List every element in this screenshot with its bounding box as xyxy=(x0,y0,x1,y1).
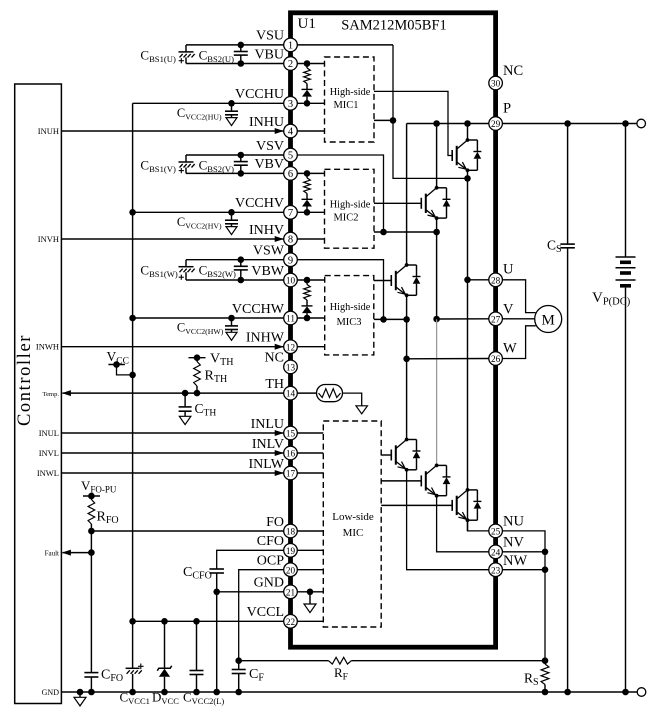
wire V to motor xyxy=(502,318,534,320)
wire VCCHV line xyxy=(133,211,284,213)
ground at pin21 inside module xyxy=(307,589,314,605)
wire Fault line with arrow into controller xyxy=(62,531,95,556)
wire U to motor xyxy=(502,280,535,313)
wire low-side gate drive W xyxy=(381,454,391,456)
pin 20 xyxy=(284,563,298,577)
svg-text:VSW: VSW xyxy=(253,244,285,259)
diode DVCC zener xyxy=(157,621,171,692)
diode bootstrap D (U) xyxy=(302,84,313,104)
svg-text:INHU: INHU xyxy=(249,115,284,130)
wire INUL from controller to module xyxy=(61,430,283,436)
pin 23 xyxy=(489,563,503,577)
resistor bootstrap R (V) xyxy=(304,173,311,193)
pin 27 xyxy=(489,312,503,326)
diode bootstrap D (W) xyxy=(302,300,313,318)
capacitor CCFO xyxy=(209,569,224,592)
pin 29 xyxy=(489,117,503,131)
svg-text:Low-side: Low-side xyxy=(332,511,374,523)
label pin name CFO xyxy=(257,534,284,549)
pin 5 xyxy=(284,148,298,162)
pin 11 xyxy=(284,311,298,325)
resistor RFO xyxy=(88,496,95,531)
label CVCC2(HW) xyxy=(177,321,224,337)
svg-text:1: 1 xyxy=(288,41,293,52)
pin 16 xyxy=(284,446,298,460)
svg-text:GND: GND xyxy=(42,688,60,697)
label SAM212M05BF1 xyxy=(341,18,447,34)
svg-text:30: 30 xyxy=(491,79,501,89)
svg-text:18: 18 xyxy=(286,527,296,537)
label pin name OCP xyxy=(257,554,284,569)
label CF xyxy=(249,667,264,684)
wire FO line xyxy=(88,528,284,535)
svg-text:VBW: VBW xyxy=(251,264,284,279)
label pin name VSW xyxy=(253,244,285,259)
ground symbol on bottom rail xyxy=(74,692,86,706)
capacitor CTH xyxy=(179,393,192,416)
wire MIC1 gate drive xyxy=(374,91,452,155)
wire P line external xyxy=(502,120,637,127)
svg-text:3: 3 xyxy=(288,99,293,110)
svg-text:VCCL: VCCL xyxy=(247,605,284,620)
wire pin 19 into low-side MIC xyxy=(297,549,323,551)
svg-text:MIC3: MIC3 xyxy=(336,317,361,328)
wire U phase column xyxy=(464,171,471,531)
wire MIC1 VS to VSU xyxy=(374,117,396,124)
wire pin 20 into low-side MIC xyxy=(297,569,323,571)
wire RF line xyxy=(239,660,545,662)
label CVCC1 xyxy=(120,690,150,707)
svg-text:16: 16 xyxy=(286,449,296,459)
svg-text:13: 13 xyxy=(286,363,296,373)
capacitor CBS1(W) electrolytic xyxy=(179,260,195,280)
svg-text:INLU: INLU xyxy=(251,417,284,432)
wire pin VCCHV to MIC xyxy=(297,209,325,216)
IGBT high-side W xyxy=(391,263,420,297)
svg-text:High-side: High-side xyxy=(330,87,371,98)
svg-text:17: 17 xyxy=(286,469,296,479)
wire VSW net xyxy=(297,260,384,320)
wire W line to pin 26 xyxy=(407,358,490,360)
wire V phase column upper xyxy=(433,219,440,323)
wire VBU line xyxy=(186,63,284,65)
label pin name NC xyxy=(503,63,523,79)
svg-text:High-side: High-side xyxy=(330,200,371,211)
svg-text:20: 20 xyxy=(286,565,296,575)
controller pin label GND xyxy=(42,688,60,697)
wire P drop to high-side W collector xyxy=(406,124,408,266)
controller pin label INVL xyxy=(39,448,59,458)
wire GND line (pin21) xyxy=(213,589,284,596)
label pin name W xyxy=(503,341,517,357)
wire P drop to high-side V collector xyxy=(436,124,438,189)
pin 24 xyxy=(489,545,503,559)
VTH terminal xyxy=(189,354,206,361)
svg-text:4: 4 xyxy=(288,127,294,138)
svg-text:VBV: VBV xyxy=(254,157,284,172)
wire NV external xyxy=(502,549,548,556)
label VTH xyxy=(210,352,233,369)
svg-text:VSV: VSV xyxy=(256,139,284,154)
wire pin 22 into low-side MIC xyxy=(297,620,323,622)
resistor bootstrap R (W) xyxy=(304,280,311,300)
wire U line to pin 28 xyxy=(468,279,490,281)
svg-text:8: 8 xyxy=(288,235,293,246)
capacitor CVCC2(L) xyxy=(190,621,204,692)
label High-side MIC1 xyxy=(330,87,371,111)
svg-text:FO: FO xyxy=(266,515,284,530)
svg-text:12: 12 xyxy=(286,342,296,352)
low-side MIC box xyxy=(323,421,381,627)
svg-text:INUH: INUH xyxy=(38,126,59,136)
label RTH xyxy=(205,369,228,386)
IGBT low-side U xyxy=(452,488,481,522)
wire VCCHW line xyxy=(133,317,284,319)
high-side MIC2 box xyxy=(325,169,375,248)
label pin name U xyxy=(503,261,514,277)
wire INHU pin4 to MIC1 xyxy=(297,130,325,132)
pin 4 xyxy=(284,124,298,138)
wire OCP line (pin20) xyxy=(239,570,284,661)
svg-text:TH: TH xyxy=(265,377,284,392)
motor M xyxy=(535,306,562,333)
capacitor CBS1(V) electrolytic xyxy=(179,155,195,173)
wire pin 16 into low-side MIC xyxy=(297,452,323,454)
wire INHV pin8 to MIC2 xyxy=(297,238,325,240)
high-side MIC1 box xyxy=(325,57,375,142)
IGBT high-side U xyxy=(452,138,481,172)
pin 30 xyxy=(489,76,503,90)
pin 26 xyxy=(489,352,503,366)
label High-side MIC3 xyxy=(330,302,371,328)
svg-text:OCP: OCP xyxy=(257,554,284,569)
VCC vertical rail xyxy=(129,103,136,624)
label RF xyxy=(334,665,348,683)
wire Temp. (TH line) with arrow into controller xyxy=(62,390,284,396)
wire pin VCCHU to MIC xyxy=(297,100,325,107)
svg-text:22: 22 xyxy=(286,617,296,627)
label CBS2(V) xyxy=(199,158,235,175)
pin 10 xyxy=(284,273,298,287)
svg-text:15: 15 xyxy=(286,429,296,439)
resistor RF xyxy=(329,657,352,664)
svg-text:27: 27 xyxy=(491,314,501,324)
resistor RTH xyxy=(194,358,201,393)
label pin name NC xyxy=(265,351,284,366)
label pin name VBV xyxy=(254,157,284,172)
wire P rail internal xyxy=(407,120,490,127)
label pin name INLW xyxy=(249,457,285,472)
svg-text:INWH: INWH xyxy=(36,342,59,352)
pin 15 xyxy=(284,426,298,440)
label CBS2(W) xyxy=(199,262,236,279)
wire P drop to high-side U collector xyxy=(467,124,469,141)
svg-text:9: 9 xyxy=(288,255,293,266)
svg-text:2: 2 xyxy=(288,59,293,70)
label RS xyxy=(524,671,539,689)
shunt node RS top xyxy=(542,657,549,664)
ground below thermistor xyxy=(356,406,368,414)
svg-text:VCCHU: VCCHU xyxy=(235,87,284,102)
svg-text:V: V xyxy=(503,301,514,317)
wire pin VBV to MIC xyxy=(297,170,325,177)
label pin name VCCL xyxy=(247,605,284,620)
controller pin label INVH xyxy=(38,234,59,244)
svg-text:INLW: INLW xyxy=(249,457,285,472)
svg-text:INVH: INVH xyxy=(38,234,59,244)
label U1 xyxy=(298,16,316,32)
label CBS1(U) xyxy=(140,48,176,65)
label VP(DC) xyxy=(592,290,631,308)
controller pin label INUL xyxy=(39,428,59,438)
svg-text:5: 5 xyxy=(288,151,293,162)
pin 17 xyxy=(284,466,298,480)
VCC terminal xyxy=(108,361,132,375)
wire low-side gate drive V xyxy=(381,480,421,482)
wire INVL from controller to module xyxy=(61,450,283,456)
svg-text:VBU: VBU xyxy=(254,47,284,62)
svg-text:29: 29 xyxy=(491,119,501,129)
svg-text:Fault: Fault xyxy=(45,549,59,557)
label pin name VCCHU xyxy=(235,87,284,102)
svg-text:Controller: Controller xyxy=(15,334,35,426)
label pin name VBW xyxy=(251,264,284,279)
label pin name TH xyxy=(265,377,284,392)
wire CFO line (pin19) xyxy=(217,550,284,569)
wire MIC2 gate drive xyxy=(374,202,421,204)
capacitor CBS2(V) xyxy=(234,152,248,177)
wire MIC2 VS line xyxy=(374,229,440,236)
wire NW external xyxy=(502,566,548,573)
pin 7 xyxy=(284,206,298,220)
wire INHW pin12 to MIC3 xyxy=(297,346,325,348)
label CVCC2(HU) xyxy=(177,106,222,122)
svg-text:6: 6 xyxy=(288,169,293,180)
wire VCCHU line xyxy=(133,102,284,104)
label RFO xyxy=(97,510,119,527)
label pin name INLU xyxy=(251,417,284,432)
pin 3 xyxy=(284,97,298,111)
ground symbol pin21 xyxy=(304,604,316,613)
wire pin 21 into low-side MIC xyxy=(297,591,323,593)
IGBT low-side V xyxy=(421,464,450,498)
controller pin label Temp. xyxy=(43,391,60,398)
wire bottom GND rail xyxy=(61,689,637,696)
controller pin label INWL xyxy=(37,468,59,478)
pin 13 xyxy=(284,360,298,374)
IPM module U1 outline xyxy=(291,13,496,647)
wire VSW line xyxy=(186,259,284,261)
pin 19 xyxy=(284,544,298,558)
thermistor on TH pin xyxy=(297,385,361,406)
wire pin VBU to MIC xyxy=(297,60,325,67)
label Low-side MIC xyxy=(332,511,374,539)
capacitor CFO xyxy=(84,553,98,692)
ground below CVCC2(HU) xyxy=(226,118,237,126)
svg-text:26: 26 xyxy=(491,354,501,364)
controller label xyxy=(15,334,35,426)
wire INUH from controller to module xyxy=(61,128,283,134)
label VCC xyxy=(107,349,129,367)
svg-text:VCCHW: VCCHW xyxy=(232,302,285,317)
capacitor CF xyxy=(232,657,246,692)
wire VBW line xyxy=(186,279,284,281)
pin 18 xyxy=(284,524,298,538)
VFO-PU terminal xyxy=(83,493,100,500)
label CBS2(U) xyxy=(199,48,235,65)
svg-text:25: 25 xyxy=(491,527,501,537)
IGBT low-side W xyxy=(391,438,420,472)
pin 22 xyxy=(284,615,298,629)
svg-text:INWL: INWL xyxy=(37,468,59,478)
svg-text:24: 24 xyxy=(491,547,501,557)
wire pin 15 into low-side MIC xyxy=(297,432,323,434)
wire INVH from controller to module xyxy=(61,236,283,242)
svg-text:U1: U1 xyxy=(298,16,316,32)
svg-text:MIC1: MIC1 xyxy=(333,100,358,111)
label pin name FO xyxy=(266,515,284,530)
label pin name VSV xyxy=(256,139,284,154)
capacitor CS xyxy=(560,124,575,693)
wire NV net xyxy=(437,496,490,552)
ground below CVCC2(HV) xyxy=(226,227,237,235)
wire pin VBW to MIC xyxy=(297,277,325,284)
pin 9 xyxy=(284,253,298,267)
label pin name INHW xyxy=(246,331,285,346)
wire NU external xyxy=(502,531,545,661)
resistor bootstrap R (U) xyxy=(304,64,311,84)
wire pin 18 into low-side MIC xyxy=(297,530,323,532)
pin 8 xyxy=(284,232,298,246)
capacitor CVCC2(HU) xyxy=(225,100,238,118)
battery VP(DC) xyxy=(616,124,636,693)
label pin name INLV xyxy=(252,437,284,452)
wire NW net xyxy=(407,470,490,569)
svg-text:INUL: INUL xyxy=(39,428,59,438)
wire VCCL line (pin22) xyxy=(133,618,284,625)
capacitor CVCC2(HV) xyxy=(225,209,238,227)
svg-text:MIC2: MIC2 xyxy=(333,213,358,224)
svg-text:W: W xyxy=(503,341,517,357)
svg-text:INHW: INHW xyxy=(246,331,285,346)
label pin name INHV xyxy=(249,223,284,238)
label pin name VCCHV xyxy=(235,196,284,211)
wire NU net xyxy=(468,521,490,531)
label CFO xyxy=(101,668,123,685)
wire MIC3 VS line xyxy=(374,316,410,323)
wire VSU net xyxy=(297,45,471,182)
pin 2 xyxy=(284,57,298,71)
wire MIC3 gate drive xyxy=(374,280,392,282)
svg-text:INLV: INLV xyxy=(252,437,284,452)
svg-text:NV: NV xyxy=(503,534,524,550)
label pin name V xyxy=(503,301,514,317)
controller pin label INWH xyxy=(36,342,59,352)
terminal open circle P xyxy=(637,119,646,128)
ground below CVCC2(HW) xyxy=(226,332,237,340)
label CS xyxy=(547,238,562,256)
label CVCC2(L) xyxy=(183,690,224,707)
wire TH line dots xyxy=(182,390,201,397)
svg-text:28: 28 xyxy=(491,275,501,285)
svg-text:M: M xyxy=(542,313,555,329)
svg-text:INVL: INVL xyxy=(39,448,59,458)
wire GND drop to rail xyxy=(216,592,218,692)
svg-text:21: 21 xyxy=(286,587,296,597)
pin 6 xyxy=(284,167,298,181)
high-side MIC3 box xyxy=(325,276,374,355)
label pin name NU xyxy=(503,514,524,530)
svg-text:NC: NC xyxy=(265,351,284,366)
wire V line to pin 27 xyxy=(437,318,490,320)
label CVCC2(HV) xyxy=(177,215,222,231)
label CCFO xyxy=(183,565,212,582)
svg-text:14: 14 xyxy=(286,389,296,399)
label pin name NW xyxy=(503,553,527,569)
svg-text:NW: NW xyxy=(503,553,527,569)
wire V phase column lower (gray) xyxy=(436,319,438,466)
svg-text:10: 10 xyxy=(286,276,296,286)
svg-text:INHV: INHV xyxy=(249,223,284,238)
pin 28 xyxy=(489,273,503,287)
controller box xyxy=(15,84,62,704)
wire pin 17 into low-side MIC xyxy=(297,472,323,474)
wire INWH from controller to module xyxy=(61,344,283,350)
wire W phase column xyxy=(403,296,410,440)
svg-text:CFO: CFO xyxy=(257,534,284,549)
wire VSU line xyxy=(186,44,284,46)
diode bootstrap D (V) xyxy=(302,193,313,212)
label pin name VSU xyxy=(256,29,284,44)
label pin name INHU xyxy=(249,115,284,130)
pin 21 xyxy=(284,585,298,599)
label CBS1(W) xyxy=(140,262,177,279)
wire INWL from controller to module xyxy=(61,470,283,476)
svg-text:11: 11 xyxy=(286,314,295,324)
wire VSV line xyxy=(186,154,284,156)
wire low-side gate drive U xyxy=(381,504,452,506)
label CBS1(V) xyxy=(140,158,176,175)
svg-text:7: 7 xyxy=(288,208,293,219)
controller pin label INUH xyxy=(38,126,59,136)
capacitor CBS2(W) xyxy=(234,256,248,283)
capacitor CVCC2(HW) xyxy=(225,315,238,333)
label DVCC xyxy=(152,690,179,707)
ground below CTH xyxy=(179,416,191,424)
svg-text:19: 19 xyxy=(286,546,296,556)
label High-side MIC2 xyxy=(330,200,371,224)
svg-text:NC: NC xyxy=(503,63,523,79)
label VFO-PU xyxy=(81,478,117,495)
wire VSV net xyxy=(297,155,384,232)
label pin name P xyxy=(503,101,511,117)
svg-text:NU: NU xyxy=(503,514,524,530)
capacitor CBS2(U) xyxy=(234,42,248,67)
wire pin VCCHW to MIC xyxy=(297,315,325,322)
svg-text:VSU: VSU xyxy=(256,29,284,44)
label pin name NV xyxy=(503,534,524,550)
label CTH xyxy=(195,401,217,419)
pin 1 xyxy=(284,38,298,52)
label pin name VBU xyxy=(254,47,284,62)
wire W to motor xyxy=(502,326,536,359)
capacitor CVCC1 xyxy=(126,621,144,692)
label pin name GND xyxy=(254,576,284,591)
controller pin label Fault xyxy=(45,549,59,557)
pin 14 xyxy=(284,386,298,400)
svg-text:U: U xyxy=(503,261,514,277)
wire VBV line xyxy=(186,172,284,174)
